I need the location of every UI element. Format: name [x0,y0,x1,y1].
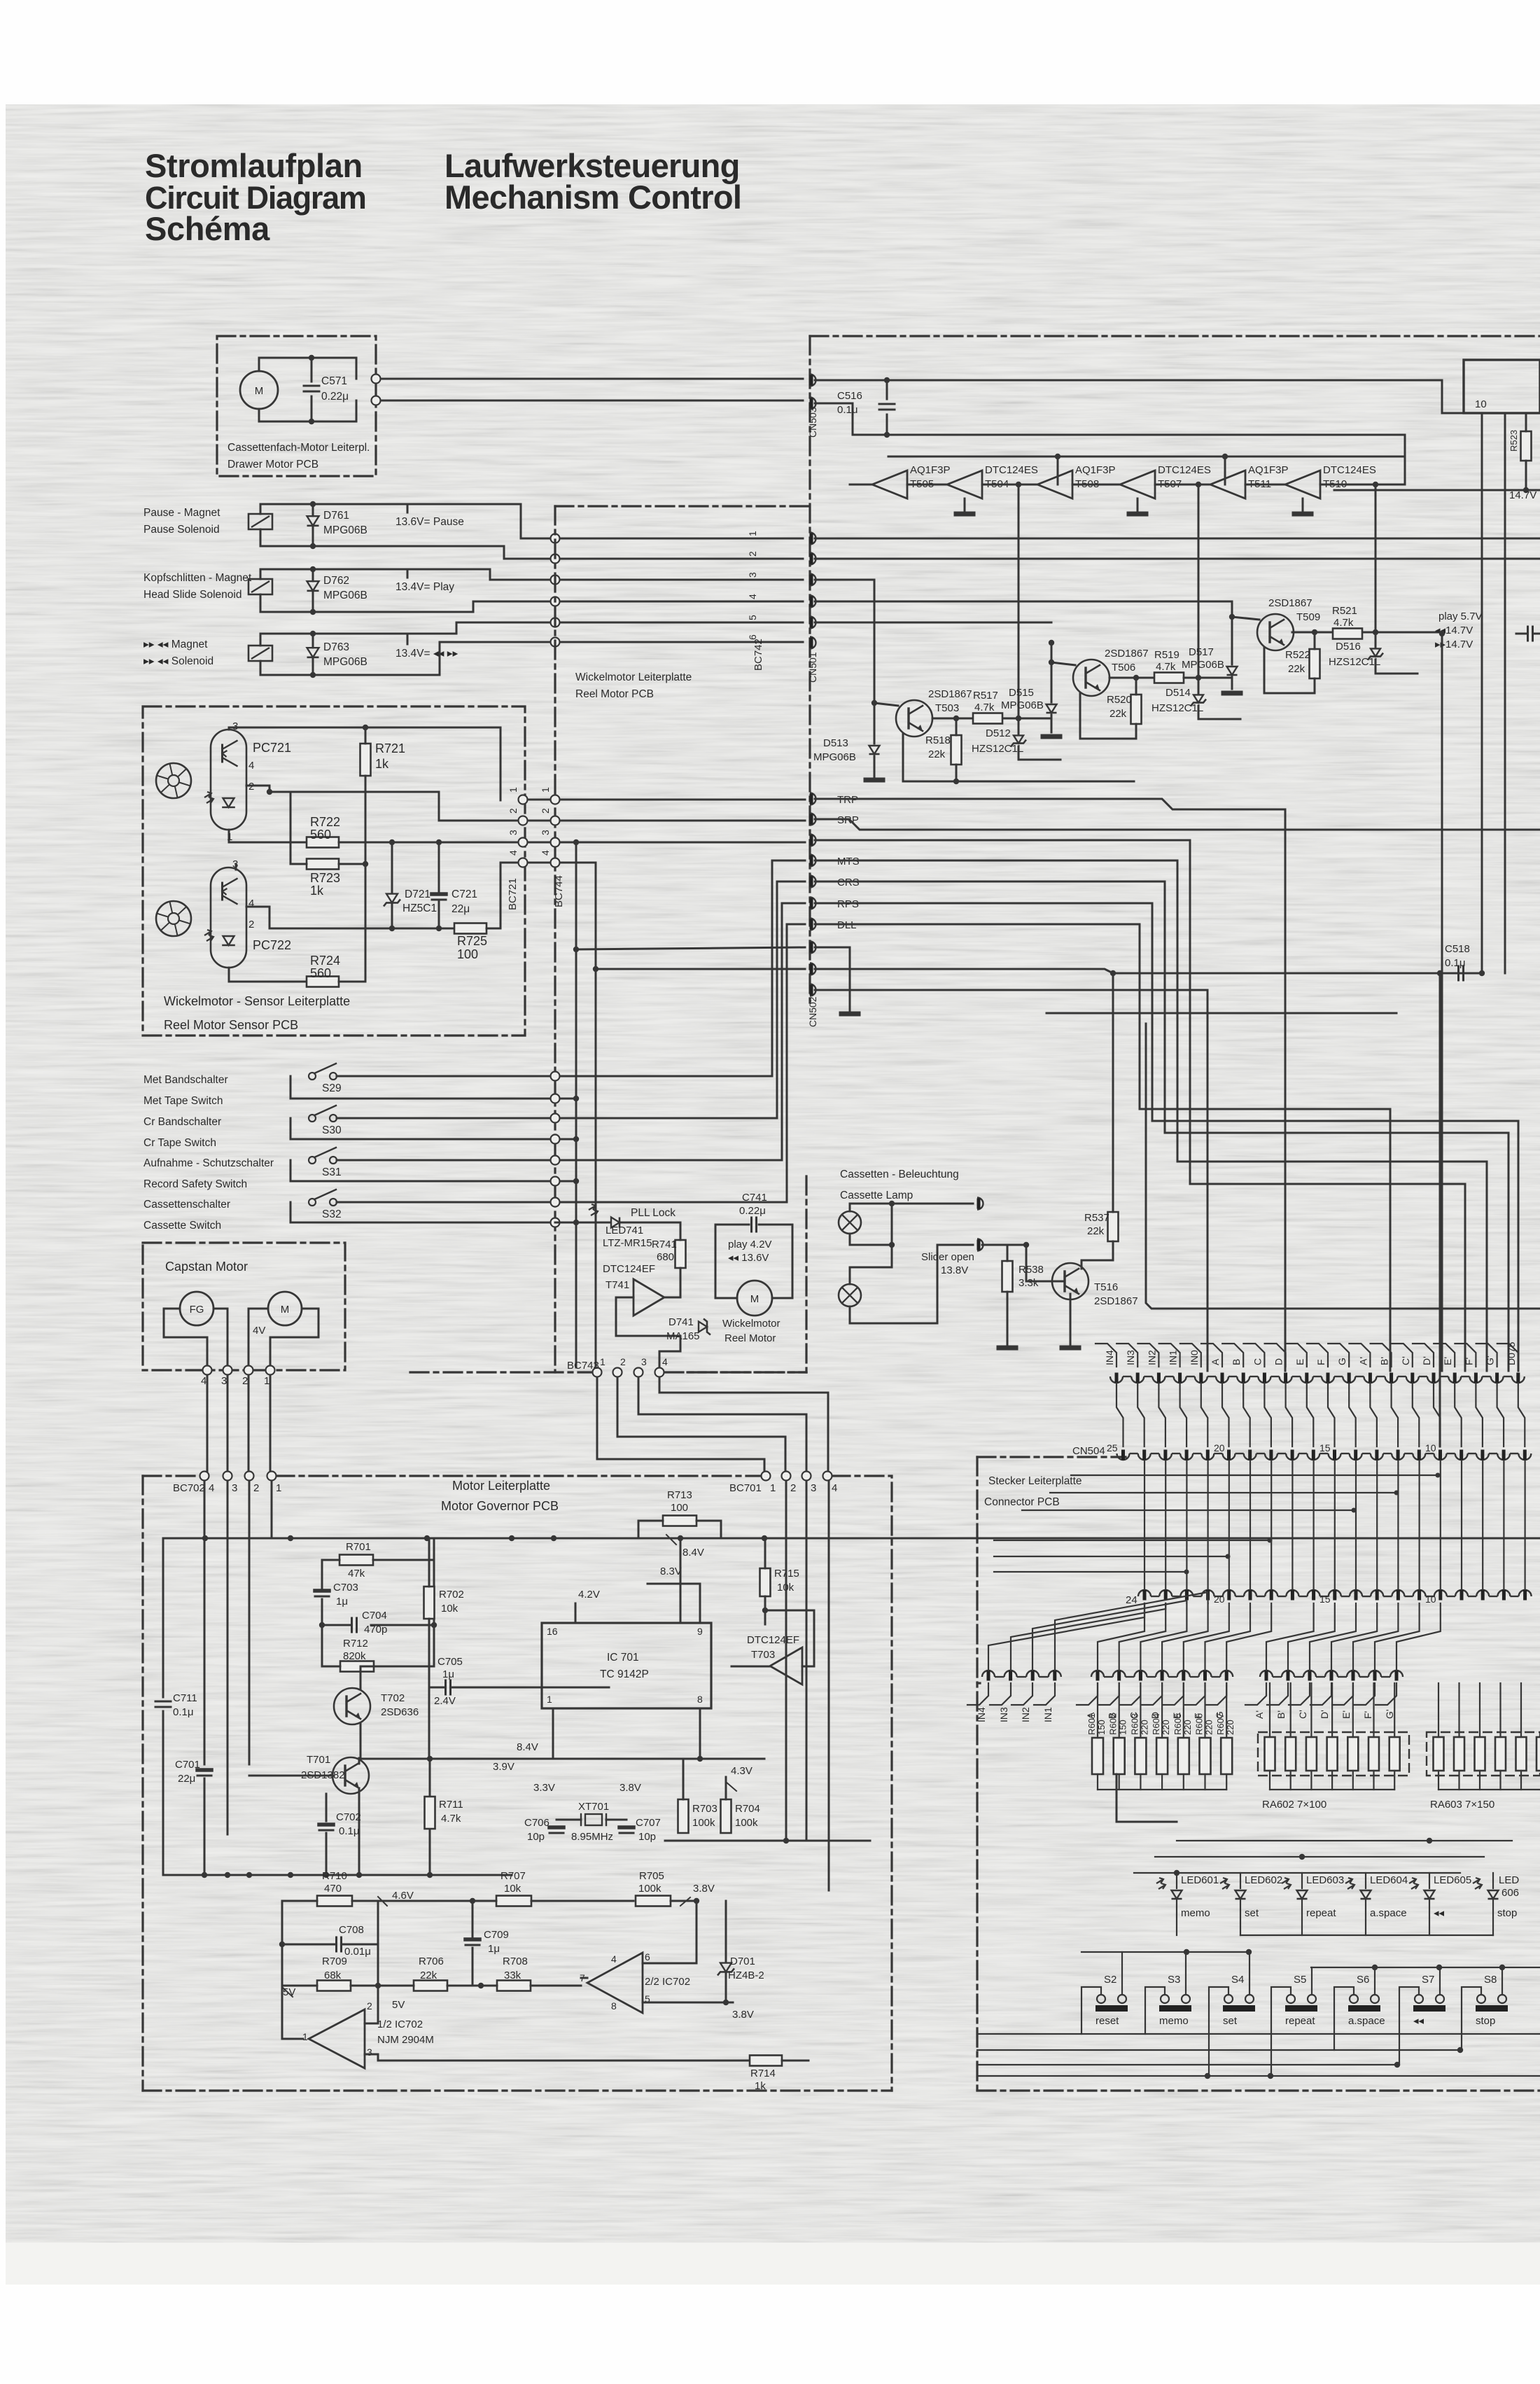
svg-text:22k: 22k [420,1970,437,1981]
svg-text:Cassettenschalter: Cassettenschalter [143,1199,230,1211]
svg-text:22k: 22k [1087,1225,1105,1237]
svg-text:1: 1 [264,1375,269,1387]
svg-text:R741: R741 [652,1239,677,1250]
wire horizontals mid [1071,1475,1438,1476]
svg-text:2: 2 [248,919,254,930]
wire switch rail A [1081,1951,1249,1953]
svg-text:1k: 1k [375,757,389,771]
svg-text:220: 220 [1225,1720,1235,1735]
main supply bus 2197 [164,1538,1540,1540]
wire d741 [659,1336,680,1367]
switch S3 [1161,1995,1169,2003]
wire r522 [1314,632,1316,649]
capacitor C741 [750,1218,752,1232]
wire resistor bottom stubs [1097,1774,1098,1790]
svg-text:C741: C741 [742,1192,767,1204]
resistor R707 [496,1896,531,1906]
svg-text:play 5.7V: play 5.7V [1438,611,1483,622]
svg-text:47k: 47k [348,1568,365,1580]
svg-text:AQ1F3P: AQ1F3P [1248,464,1289,476]
pins CN501 upper [810,533,816,545]
buffer T508 [1037,470,1072,499]
wire r724 to r721 col [339,864,365,982]
wire drawer motor loop [259,358,356,379]
svg-text:LED601: LED601 [1181,1874,1219,1886]
pins lamp connector [977,1198,983,1210]
svg-text:3: 3 [540,830,551,835]
svg-text:R602: R602 [1108,1713,1119,1735]
wire pin1 right [815,538,1540,540]
svg-text:R712: R712 [343,1638,368,1650]
capacitor C515 edge [1527,627,1529,641]
buffer T504 [947,470,982,499]
wire pin3 right [815,580,874,744]
svg-text:E: E [1294,1359,1305,1365]
switch S7 [1415,1995,1423,2003]
svg-text:Wickelmotor: Wickelmotor [722,1318,780,1330]
pins BC744 [551,795,560,804]
svg-text:LED605: LED605 [1434,1874,1471,1886]
wire r538 ground [1007,1292,1009,1344]
svg-text:C: C [1252,1358,1263,1365]
svg-text:T503: T503 [935,702,959,714]
svg-text:2.4V: 2.4V [434,1695,456,1707]
svg-text:IN1: IN1 [1042,1707,1053,1722]
diode D517 [1227,667,1238,675]
wire d512 [1003,718,1051,720]
wire t509 emitter loop [1264,648,1315,693]
svg-text:▸▸14.7V: ▸▸14.7V [1435,639,1473,650]
wire BC744 out [560,799,805,801]
svg-text:RA603 7×150: RA603 7×150 [1430,1799,1494,1811]
wire buffer chain [850,484,872,486]
svg-text:IN2: IN2 [1146,1350,1157,1365]
svg-text:220: 220 [1161,1720,1171,1735]
svg-text:set: set [1245,1907,1259,1919]
wire IN risers row4 [988,1603,1144,1671]
wire DLL [815,924,1390,1371]
svg-text:8.4V: 8.4V [682,1547,704,1559]
svg-text:D513: D513 [823,737,848,749]
svg-text:DTC124ES: DTC124ES [1323,464,1376,476]
svg-text:C516: C516 [837,390,862,402]
wire RPS [815,903,1518,1371]
svg-text:C': C' [1400,1356,1411,1365]
svg-text:R604: R604 [1151,1713,1161,1735]
wire bus 2512 [360,1758,764,1760]
wire CRS [815,881,1508,1371]
svg-text:MPG06B: MPG06B [813,751,856,763]
capacitor C702 [319,1822,333,1827]
svg-text:R702: R702 [439,1589,464,1601]
svg-text:1: 1 [276,1482,281,1494]
wire sig3 [815,840,1465,1371]
capacitor C711 [155,1701,171,1703]
svg-text:repeat: repeat [1306,1907,1336,1919]
svg-text:MPG06B: MPG06B [1001,699,1044,711]
svg-text:68k: 68k [324,1970,342,1981]
svg-text:Cassette Lamp: Cassette Lamp [840,1190,913,1201]
svg-text:D: D [1273,1358,1284,1365]
svg-text:22k: 22k [1109,708,1127,720]
svg-text:IN0: IN0 [1189,1350,1200,1365]
svg-text:1: 1 [747,531,758,536]
resistor R724 [307,977,339,987]
wire TRP [815,799,1285,1371]
transistor T503 [896,700,932,737]
switch S4 [1224,1995,1233,2003]
svg-text:R713: R713 [667,1489,692,1501]
lamp 2 [839,1284,861,1306]
svg-text:R517: R517 [973,690,998,702]
svg-text:D': D' [1421,1356,1432,1365]
resistor R537 [1108,1212,1119,1241]
LED LED604 [1345,1878,1354,1889]
svg-text:BC744: BC744 [553,875,565,907]
wire lamps [850,1204,973,1211]
svg-text:C721: C721 [451,888,477,900]
wire c709 [472,1901,474,1937]
svg-text:C707: C707 [636,1817,661,1829]
svg-text:R706: R706 [419,1956,444,1967]
wire BC743 fan to BC701 [597,1377,764,1471]
resistor R519 [1154,673,1184,683]
svg-text:15: 15 [1319,1594,1331,1605]
resistor R523 [1521,431,1532,461]
svg-text:3.9V: 3.9V [493,1761,514,1773]
wire t703 [731,1666,770,1668]
svg-text:Reel Motor Sensor PCB: Reel Motor Sensor PCB [164,1018,298,1032]
wire pc722 pin2 row [269,907,454,928]
resistor R520 [1131,695,1142,724]
svg-text:0.1μ: 0.1μ [837,404,858,416]
svg-text:4: 4 [248,760,254,772]
svg-text:play 4.2V: play 4.2V [728,1239,772,1250]
wire r712 net [322,1625,340,1666]
svg-text:D721: D721 [405,888,430,900]
diode D515 [1046,704,1057,713]
svg-text:S8: S8 [1484,1974,1497,1986]
svg-text:XT701: XT701 [578,1801,609,1813]
svg-text:S3: S3 [1168,1974,1180,1986]
svg-text:M: M [255,385,264,397]
wire r709 [282,1985,317,1987]
svg-text:S2: S2 [1104,1974,1116,1986]
svg-text:Met Tape Switch: Met Tape Switch [143,1095,223,1107]
svg-text:4.7k: 4.7k [441,1813,461,1825]
relay coil D761 row [248,514,272,529]
svg-text:S7: S7 [1422,1974,1434,1986]
resistor R710 [317,1896,352,1906]
svg-text:D762: D762 [323,575,349,587]
svg-text:C701: C701 [175,1759,200,1771]
transistor T702 [334,1688,370,1724]
svg-text:10: 10 [1425,1594,1436,1605]
svg-text:D515: D515 [1009,687,1034,699]
border BC743 row [410,1371,591,1373]
svg-text:2: 2 [507,808,519,814]
ground T507 [1137,499,1139,511]
svg-text:4: 4 [540,850,551,856]
svg-text:R523: R523 [1508,430,1519,452]
svg-text:T741: T741 [605,1279,629,1291]
wire r710 [352,1900,378,1902]
svg-text:1/2 IC702: 1/2 IC702 [377,2019,423,2030]
svg-text:Head Slide Solenoid: Head Slide Solenoid [143,589,241,601]
resistor R602 [1114,1738,1125,1774]
svg-text:2SD1867: 2SD1867 [1268,597,1312,609]
svg-text:8: 8 [697,1694,703,1705]
resistor R721 [360,744,371,776]
wire ic701 top pins [680,1538,682,1623]
resistor R725 [454,923,486,934]
wire r520 [1135,678,1137,695]
wire led feeders [1116,1774,1177,1822]
svg-text:150: 150 [1118,1720,1128,1735]
svg-text:R714: R714 [750,2068,776,2079]
LED LED603 [1282,1878,1291,1889]
resistor R522 [1310,649,1320,678]
svg-text:Met Bandschalter: Met Bandschalter [143,1074,228,1086]
zener D516 [1368,648,1383,660]
wire S29 to MTS [560,860,805,1076]
svg-text:G: G [1336,1358,1347,1365]
resistor R517 [973,713,1002,724]
svg-text:10k: 10k [441,1603,458,1615]
optocoupler PC721 [211,730,246,830]
svg-text:606: 606 [1501,1887,1519,1899]
wire C518 net [815,969,1482,973]
svg-text:1μ: 1μ [442,1668,454,1680]
svg-text:560: 560 [310,828,331,842]
diode D513 [869,746,880,754]
wire r725 right [486,863,521,928]
motor M drawer [240,371,278,409]
svg-text:4.2V: 4.2V [578,1589,600,1601]
svg-text:9: 9 [697,1626,703,1637]
wire bc702 drops [204,1481,206,1764]
svg-text:AQ1F3P: AQ1F3P [1075,464,1116,476]
wire t701 base [249,1775,334,1777]
svg-text:Capstan Motor: Capstan Motor [165,1260,248,1274]
svg-text:5V: 5V [392,1999,405,2011]
switch S5 [1287,1995,1295,2003]
wire rows 2-3 links [1144,1461,1145,1589]
svg-text:R704: R704 [735,1803,760,1815]
svg-text:R606: R606 [1194,1713,1205,1735]
svg-text:B': B' [1379,1357,1390,1365]
wire pc722 pin3 stub [235,864,237,870]
svg-text:100k: 100k [638,1883,661,1895]
svg-text:IC 701: IC 701 [607,1652,639,1664]
svg-text:10k: 10k [504,1883,521,1895]
wire r723 row [290,863,307,865]
svg-text:M: M [281,1304,290,1316]
pins BC701 [762,1472,771,1481]
svg-text:Slider open: Slider open [921,1251,974,1263]
svg-text:R607: R607 [1215,1713,1226,1735]
svg-text:1k: 1k [310,884,324,898]
connector row 4 groups [982,1671,995,1677]
lamp 1 [839,1211,861,1234]
wire vert 2057 [1439,973,1441,1447]
svg-text:IN2: IN2 [1020,1707,1031,1722]
svg-text:0.22μ: 0.22μ [321,391,349,403]
LED LED602 [1220,1878,1229,1889]
svg-text:4: 4 [747,594,758,599]
svg-text:HZS12C1L: HZS12C1L [972,743,1023,755]
svg-text:reset: reset [1095,2015,1119,2027]
wire r701 [373,1538,434,1560]
ground CN502 pin8 [815,947,850,1010]
svg-text:1: 1 [770,1482,776,1494]
svg-text:2SD1867: 2SD1867 [1094,1295,1138,1307]
wire pin2 right [815,558,1540,560]
svg-text:C702: C702 [336,1811,361,1823]
svg-text:24: 24 [1126,1594,1137,1606]
svg-text:Kopfschlitten - Magnet: Kopfschlitten - Magnet [143,572,252,584]
svg-text:3.8V: 3.8V [732,2009,754,2021]
wire d517 [1231,601,1233,664]
svg-text:2SD1867: 2SD1867 [1105,648,1149,660]
wire pc722 pin4 [246,906,269,908]
terminal drawer 2 [372,396,381,405]
svg-text:C705: C705 [437,1656,463,1668]
svg-text:4.7k: 4.7k [1156,661,1176,673]
svg-text:R724: R724 [310,954,340,968]
capacitor C708 [335,1937,337,1951]
svg-text:stop: stop [1476,2015,1495,2027]
svg-text:Stecker Leiterplatte: Stecker Leiterplatte [988,1475,1082,1487]
resistor R601 [1092,1738,1103,1774]
angled labels row top [1095,1344,1116,1367]
wire CN503-2 long [815,403,1405,456]
transistor T516 [1052,1263,1088,1299]
svg-text:D512: D512 [986,727,1011,739]
svg-text:stop: stop [1497,1907,1517,1919]
svg-text:2: 2 [620,1356,626,1367]
svg-text:22μ: 22μ [451,903,470,915]
svg-text:IN4: IN4 [976,1707,987,1722]
generator FG [180,1292,213,1325]
resistor R714 [750,2056,782,2066]
svg-text:G': G' [1485,1355,1496,1365]
svg-text:E': E' [1442,1357,1453,1365]
svg-text:Reel Motor: Reel Motor [724,1332,776,1344]
LED LED605 [1409,1878,1418,1889]
svg-text:25: 25 [1107,1442,1118,1454]
Drawer Motor PCB border [217,336,376,476]
transistor T741 driver [633,1279,664,1316]
svg-text:IN3: IN3 [1125,1350,1136,1365]
pins BC721 [519,795,528,804]
resistor R607 [1221,1738,1232,1774]
wire capstan internal [164,1309,207,1365]
svg-text:R601: R601 [1086,1713,1097,1735]
svg-text:22k: 22k [928,748,946,760]
wire BC742 pin 5 to CN501 [560,622,803,624]
wire t516 emitter ground [1070,1294,1072,1344]
svg-text:S5: S5 [1294,1974,1306,1986]
capacitor C704 [351,1618,353,1632]
svg-text:D517: D517 [1189,646,1214,658]
pins capstan out [203,1366,212,1375]
switch S6 [1350,1995,1358,2003]
svg-text:5: 5 [747,615,758,620]
svg-text:R723: R723 [310,871,340,885]
svg-text:BC743: BC743 [567,1360,599,1372]
resistor array RA603 [1427,1732,1540,1776]
svg-text:C704: C704 [362,1610,387,1622]
wire t741 [664,1268,680,1297]
svg-text:15: 15 [1319,1442,1331,1454]
pins BC743 [593,1368,602,1377]
svg-text:T509: T509 [1296,611,1320,623]
capacitor C518 [1457,966,1459,980]
svg-text:R710: R710 [322,1870,347,1882]
svg-text:3: 3 [221,1375,227,1387]
sensor wheel 1 [156,763,191,798]
wire r537 top [1112,973,1114,1212]
svg-text:3.8V: 3.8V [619,1782,641,1794]
terminal drawer 1 [372,375,381,384]
wire verticals below bc701 [785,1481,787,1841]
svg-text:20: 20 [1214,1442,1225,1454]
resistor R706 [414,1981,447,1991]
reel motor M [737,1281,772,1316]
wire r518 [955,718,958,735]
wire BC744 pin4 down [560,863,805,969]
svg-text:3: 3 [747,572,758,578]
Capstan Motor box [143,1243,345,1370]
svg-text:R722: R722 [310,815,340,829]
wire solenoid row [260,634,262,646]
transistor T509 [1257,614,1294,650]
svg-text:LED: LED [1499,1874,1519,1886]
svg-text:C711: C711 [173,1692,197,1704]
svg-text:CN501: CN501 [807,652,818,683]
svg-text:4: 4 [507,850,519,856]
svg-text:MPG06B: MPG06B [323,524,367,536]
svg-text:C571: C571 [321,375,347,387]
svg-text:DTC124EF: DTC124EF [747,1634,799,1646]
svg-text:Motor Leiterplatte: Motor Leiterplatte [452,1479,550,1493]
wire S30 to CRS [560,881,805,1118]
Reel PCB border right [805,1176,807,1372]
svg-text:▸▸ ◂◂ Solenoid: ▸▸ ◂◂ Solenoid [143,655,213,667]
svg-text:F': F' [1362,1711,1373,1719]
wire ic pins down [1504,413,1506,973]
svg-text:3: 3 [641,1356,647,1367]
pins CN503 [810,375,816,386]
svg-text:4.6V: 4.6V [392,1890,414,1902]
wire BC742 pin 2 to CN501 [560,558,803,560]
diode D762 [307,581,319,591]
Connector PCB border bottom [977,2089,1540,2091]
motor M capstan [268,1292,302,1325]
resistor R712 [340,1661,374,1672]
svg-text:R538: R538 [1018,1264,1044,1276]
diode D763 [307,648,319,657]
wire t509 base feed [1232,617,1259,620]
svg-text:0.1μ: 0.1μ [339,1825,360,1837]
wire ic701 bottom [552,1708,554,1759]
svg-text:FG: FG [190,1304,204,1316]
svg-text:0.01μ: 0.01μ [344,1946,371,1958]
svg-text:3: 3 [811,1482,816,1494]
svg-text:100k: 100k [735,1817,758,1829]
svg-text:Stromlaufplan: Stromlaufplan [145,147,363,184]
